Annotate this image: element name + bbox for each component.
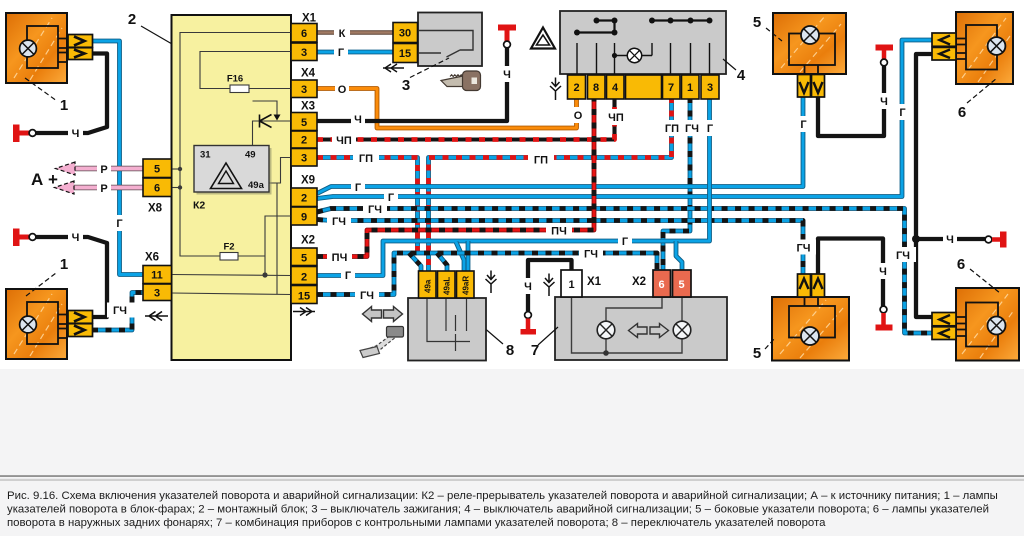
switch right arrow icon: [384, 307, 403, 322]
wire internal X6:3 to X2:15: [172, 293, 292, 295]
svg-text:указателей поворота в блок-фар: указателей поворота в блок-фарах; 2 – мо…: [7, 504, 989, 516]
hazard switch 4 body: [560, 11, 726, 74]
label Р lower: [97, 181, 111, 194]
svg-text:Г: Г: [707, 123, 714, 135]
lamp 1 top-left block headlamp: [6, 13, 67, 83]
hazard triangle icon in K2: [211, 163, 242, 189]
label Г on bus 2: [384, 190, 398, 203]
svg-text:9: 9: [301, 212, 307, 224]
svg-text:Г: Г: [388, 192, 395, 204]
svg-text:49аL: 49аL: [443, 277, 452, 295]
svg-text:6: 6: [658, 279, 664, 291]
svg-text:2: 2: [573, 82, 579, 94]
side lamp 5 top: [773, 13, 846, 74]
wire К X1:6 to ignition pin 30: [317, 30, 393, 34]
svg-text:О: О: [338, 84, 347, 96]
label Г on bus 1: [351, 180, 365, 193]
svg-text:3: 3: [402, 77, 410, 94]
svg-text:49а: 49а: [424, 279, 433, 293]
wire internal X1:3 to F16 to X4:3: [200, 52, 291, 89]
label Ч at left ground top: [68, 126, 83, 139]
label Ч on power T drop: [500, 66, 514, 82]
label Г on bus to hazard pin 3: [618, 234, 632, 247]
rear lamp 6 bottom connector plugs: [932, 313, 956, 326]
panel right arrow icon: [650, 324, 669, 338]
svg-text:поворота в наружных задних фон: поворота в наружных задних фонарях; 7 – …: [7, 517, 826, 529]
svg-text:ПЧ: ПЧ: [332, 252, 348, 264]
svg-text:1: 1: [568, 279, 574, 291]
svg-text:ГЧ: ГЧ: [584, 249, 598, 261]
panel junction dot: [603, 350, 609, 356]
label ЧП under hazard pin 4: [603, 109, 628, 125]
svg-text:К: К: [339, 28, 346, 40]
mounting block 2 body: [172, 15, 292, 360]
svg-text:Х1: Х1: [587, 276, 602, 288]
label Г near X2:2: [341, 268, 355, 281]
label К on ignition feed: [334, 26, 350, 39]
svg-text:Х4: Х4: [301, 68, 316, 80]
hazard lamp wiring: [615, 55, 653, 57]
wire Г branches to switch pin 49аR: [456, 242, 464, 272]
label ГЧ under hazard pin 1: [679, 120, 704, 136]
hazard contact bridge 8-4: [597, 21, 615, 33]
label ГЧ on rear lamp 6 bottom drop: [891, 247, 916, 262]
wire ГП hazard pin 7 to switch pin 49а: [429, 97, 672, 272]
wire ГЧ lamp1 bottom-left to X6:3: [92, 293, 143, 331]
svg-text:5: 5: [301, 253, 307, 265]
panel right turn lamp: [673, 321, 691, 339]
wire ПЧ X2:5 to hazard pin 8: [317, 97, 594, 257]
svg-text:6: 6: [154, 183, 160, 195]
svg-text:ГЧ: ГЧ: [685, 123, 699, 135]
svg-text:2: 2: [301, 135, 307, 147]
label Г on rear lamp 6 top drop: [895, 104, 910, 120]
switch left arrow icon: [363, 307, 382, 322]
label ГЧ on bus to panel pin 6: [579, 247, 603, 260]
label 7 pointer: [538, 327, 558, 345]
svg-text:Ч: Ч: [72, 232, 80, 244]
svg-text:Х6: Х6: [145, 252, 159, 264]
label Ч on side lamp 5 top ground: [877, 93, 891, 109]
wire ГЧ bus#2 X9:9 to side lamp 5 bottom: [317, 220, 803, 276]
svg-text:6: 6: [957, 256, 965, 273]
svg-text:ГЧ: ГЧ: [113, 305, 127, 317]
label ГП under hazard pin 7: [660, 120, 684, 136]
svg-text:ГЧ: ГЧ: [368, 204, 382, 216]
panel internal wiring: [606, 297, 662, 321]
hazard contact bridge right: [652, 19, 710, 21]
label 8 pointer: [482, 326, 503, 344]
label Г on side lamp 5 top drop: [796, 116, 811, 132]
hazard indicator lamp: [627, 48, 641, 62]
power source T top-center: [498, 25, 516, 31]
label ГЧ on side lamp 5 bottom drop: [791, 240, 816, 255]
label 1 pointer top-left: [25, 78, 57, 101]
wire Г lamp1 top-left to X6:11: [92, 41, 143, 275]
ground right mid: circle stem bar: [985, 236, 992, 243]
ground left mid: bar stem circle: [13, 229, 20, 247]
lamp 1 top-left connector plugs: [68, 35, 93, 48]
label Ч on X3:5 run: [351, 112, 365, 125]
side lamp 5 bottom connector plugs: [798, 274, 811, 297]
ignition switch 3 body: [418, 13, 482, 67]
lamp 1 bottom-left connector plugs: [68, 311, 93, 324]
svg-text:ГП: ГП: [359, 153, 373, 165]
hazard contact dots: [574, 18, 713, 59]
svg-text:Ч: Ч: [354, 114, 362, 126]
svg-text:Г: Г: [116, 218, 123, 230]
label Ч on panel ground drop: [521, 278, 535, 294]
ignition pin 30: [393, 23, 418, 43]
svg-text:ГЧ: ГЧ: [797, 243, 811, 255]
svg-text:ГП: ГП: [665, 123, 679, 135]
wire Г bus#2 X9:2 to rear lamp 6 top: [317, 40, 933, 199]
svg-text:1: 1: [687, 82, 693, 94]
wire Г branch to panel X2 pin 5: [676, 241, 682, 272]
wire Ч branch to right ground: [916, 237, 985, 241]
wire Ч from power T to X3:5: [317, 47, 507, 121]
svg-text:Рис. 9.16. Схема включения ука: Рис. 9.16. Схема включения указателей по…: [7, 490, 998, 502]
svg-text:3: 3: [301, 153, 307, 165]
switch pins 49а 49аL 49аR: [419, 271, 475, 298]
svg-text:49аR: 49аR: [462, 276, 471, 295]
fuse F16: [230, 85, 249, 93]
svg-text:F2: F2: [223, 242, 234, 253]
wire ГЧ X2:15 bus to panel X2 pin 6: [317, 253, 657, 295]
svg-text:49: 49: [245, 150, 256, 161]
wire internal X9:9 drop: [265, 216, 291, 275]
label Ч on right ground run: [943, 232, 957, 246]
label 5 pointer bottom: [765, 338, 775, 349]
svg-text:3: 3: [707, 82, 713, 94]
svg-text:Х3: Х3: [301, 101, 315, 113]
wire Р source A to X8:5: [74, 166, 143, 172]
panel left turn lamp: [597, 321, 615, 339]
ignition internal contact from pin 15: [418, 50, 460, 57]
svg-text:Р: Р: [100, 164, 107, 176]
svg-text:Х9: Х9: [301, 175, 315, 187]
wire Р source A to X8:6: [74, 185, 143, 191]
panel ground: circle stem bar: [525, 312, 532, 319]
chassis ground symbol at hazard pin 2: [550, 78, 561, 101]
label 4 pointer: [723, 59, 736, 70]
svg-text:15: 15: [399, 48, 411, 60]
svg-text:ЧП: ЧП: [336, 135, 352, 147]
wire internal X8:6 stub: [172, 187, 181, 189]
arrow continuation right below X2: [293, 308, 315, 316]
svg-text:Ч: Ч: [946, 234, 954, 246]
panel connector X1 pin 1: [561, 270, 582, 297]
wire internal X6:11 to X2:2: [172, 275, 292, 276]
wire О X4:3 to hazard pin 2: [317, 89, 577, 129]
svg-text:7: 7: [531, 342, 539, 359]
label ЧП near X3:2: [332, 133, 356, 146]
label 2 pointer: [141, 26, 172, 44]
label ГЧ near X2:15: [355, 288, 379, 301]
rear lamp 6 bottom: [956, 288, 1019, 361]
svg-text:8: 8: [593, 82, 599, 94]
diode VD: [260, 115, 272, 128]
wire Г bus#1 X9:2 to side lamp 5 top: [317, 97, 803, 194]
svg-text:5: 5: [154, 164, 160, 176]
node junction X8:5 on inner rail: [178, 167, 182, 171]
junction dot right ground run: [912, 235, 920, 243]
svg-text:Ч: Ч: [879, 266, 887, 278]
node junction X9:9/X2 line: [262, 272, 267, 277]
wire ГЧ bus#1 X9:9 to rear lamp 6 bottom: [317, 209, 933, 334]
svg-text:6: 6: [301, 28, 307, 40]
fuse F2: [220, 253, 238, 261]
rear lamp 6 top: [956, 12, 1013, 84]
chassis ground symbol right of 49аR: [486, 271, 497, 294]
hazard internal contact stubs: [577, 43, 710, 74]
svg-text:Г: Г: [622, 236, 629, 248]
side lamp 5 bottom: [772, 297, 849, 361]
label Г under hazard pin 3: [703, 120, 717, 136]
stalk lever icon: [369, 337, 397, 354]
switch internal wiring: [427, 298, 470, 342]
svg-text:Х2: Х2: [301, 235, 315, 247]
svg-text:5: 5: [753, 14, 761, 31]
label ПЧ near X2:5: [327, 250, 352, 263]
wire internal relay 49 to diode: [253, 101, 278, 117]
svg-text:5: 5: [753, 345, 761, 362]
svg-text:Г: Г: [355, 182, 362, 194]
label ГЧ on bus 1: [363, 202, 387, 215]
key icon: [441, 76, 463, 87]
caption separator: [0, 475, 1024, 477]
wire Г X2:2 bus to hazard pin 3: [317, 97, 710, 276]
svg-text:1: 1: [60, 256, 68, 273]
label ГЧ at bottom-left lamp: [107, 303, 135, 318]
label О near X4: [335, 82, 349, 95]
svg-text:5: 5: [678, 279, 684, 291]
rear lamp 6 top connector plugs: [932, 33, 956, 46]
svg-text:К2: К2: [193, 200, 205, 212]
svg-text:Г: Г: [800, 119, 807, 131]
svg-text:6: 6: [958, 104, 966, 121]
label ГП near X3:3: [353, 151, 379, 164]
wire internal riser to 49а line: [276, 183, 278, 294]
svg-text:ГЧ: ГЧ: [896, 250, 910, 262]
svg-text:О: О: [574, 110, 583, 122]
relay K2: [197, 148, 272, 195]
caption text: [7, 490, 998, 529]
hazard pins row: [568, 75, 720, 99]
wire internal X1:6 to F2: [180, 33, 291, 257]
svg-text:Х2: Х2: [632, 276, 646, 288]
label Р upper: [97, 162, 111, 175]
svg-text:ГЧ: ГЧ: [360, 290, 374, 302]
wire ГП X3:3 down at x=417.5: [317, 158, 418, 255]
svg-text:Ч: Ч: [503, 69, 511, 81]
svg-text:ПЧ: ПЧ: [551, 226, 567, 238]
wire internal X8:5 stub: [172, 168, 181, 170]
label 1 pointer bottom-left: [26, 273, 56, 296]
svg-text:Х8: Х8: [148, 203, 163, 215]
svg-text:31: 31: [200, 150, 211, 161]
svg-text:3: 3: [301, 47, 307, 59]
label 3 pointer: [410, 58, 449, 78]
svg-text:5: 5: [301, 117, 307, 129]
svg-text:Ч: Ч: [524, 281, 532, 293]
svg-text:4: 4: [612, 82, 619, 94]
label 5 pointer top: [766, 28, 782, 41]
wire Ч lamp1 top-left to ground: [36, 54, 107, 134]
label Ч on side lamp 5 bottom ground: [876, 263, 890, 279]
label Ч at left ground mid: [68, 230, 83, 243]
ground left top: bar stem circle: [13, 125, 20, 143]
svg-text:7: 7: [668, 82, 674, 94]
ground top right: T bar stem circle: [876, 45, 894, 51]
wire Ч side lamp 5 top to ground: [818, 66, 884, 136]
svg-text:2: 2: [301, 193, 307, 205]
svg-text:15: 15: [298, 291, 310, 303]
svg-text:49а: 49а: [248, 180, 265, 191]
svg-text:Г: Г: [338, 47, 345, 59]
label ГП on hazard pin7 run: [528, 153, 554, 166]
wire Ч rear lamp 6 top to rear lamp 6 bottom ground run: [916, 54, 933, 317]
svg-text:Г: Г: [899, 107, 906, 119]
wire ЧП X3:2 to hazard pin 4: [317, 97, 615, 140]
label 6 pointer bottom: [970, 269, 1000, 293]
wire ГЧ branch to switch pin 49аL: [437, 253, 447, 272]
ignition internal contact from pin 30: [418, 31, 474, 51]
label 6 pointer top: [967, 78, 997, 103]
label ГЧ on bus 2: [327, 214, 351, 227]
svg-text:ЧП: ЧП: [608, 112, 624, 124]
panel left arrow icon: [629, 324, 648, 338]
svg-text:2: 2: [301, 272, 307, 284]
svg-text:Г: Г: [345, 270, 352, 282]
turn signal switch 8 body: [408, 298, 486, 361]
svg-text:F16: F16: [227, 74, 243, 85]
svg-text:Ч: Ч: [880, 96, 888, 108]
svg-text:Ч: Ч: [72, 128, 80, 140]
svg-text:4: 4: [737, 67, 746, 84]
wire ГЧ hazard pin 1 to panel X2 pin 6: [663, 97, 690, 272]
node junction X8:6 on inner rail: [178, 185, 182, 189]
page background: [0, 0, 1024, 369]
label О under hazard pin 2: [570, 107, 586, 123]
wire internal X3:3 to relay 49а: [269, 158, 291, 184]
svg-text:1: 1: [60, 97, 68, 114]
wire ГЧ branch to switch pin 49а: [409, 253, 421, 272]
wire Ч side lamp 5 bottom to ground: [818, 239, 883, 307]
svg-text:8: 8: [506, 342, 514, 359]
hazard contact bridge 2-4: [577, 31, 615, 33]
label Г on ignition feed: [334, 46, 348, 59]
wire internal diode line to X3:5: [253, 121, 292, 145]
lamp 1 bottom-left block headlamp: [6, 289, 67, 359]
svg-text:11: 11: [151, 270, 163, 282]
hazard warning triangle icon: [531, 28, 555, 49]
svg-text:3: 3: [154, 288, 160, 300]
ground bottom right of lamp5: circle stem bar: [880, 306, 887, 313]
arrow continuation left at X6: [145, 312, 168, 321]
svg-text:30: 30: [399, 28, 411, 40]
wire Ч panel X1:1 to ground: [528, 260, 572, 311]
instrument panel 7 body: [555, 297, 727, 360]
svg-text:3: 3: [301, 84, 307, 96]
label ПЧ on hazard pin8 run: [546, 224, 572, 237]
ignition pin 15: [393, 44, 418, 63]
svg-text:ГП: ГП: [534, 155, 548, 167]
arrow continuation left at ignition: [383, 64, 404, 72]
svg-text:2: 2: [128, 11, 136, 28]
wire Г X1:3 to ignition pin 15: [317, 50, 393, 55]
connector X8 pins: [143, 159, 172, 197]
svg-text:А +: А +: [31, 170, 58, 189]
wire Ч lamp1 bottom-left to ground: [36, 237, 107, 317]
side lamp 5 top connector plugs: [798, 75, 811, 98]
chassis ground symbol at panel X1: [544, 274, 555, 297]
svg-text:ГЧ: ГЧ: [332, 216, 346, 228]
label Г on left lamp drop: [112, 215, 127, 231]
svg-text:Р: Р: [100, 183, 107, 195]
